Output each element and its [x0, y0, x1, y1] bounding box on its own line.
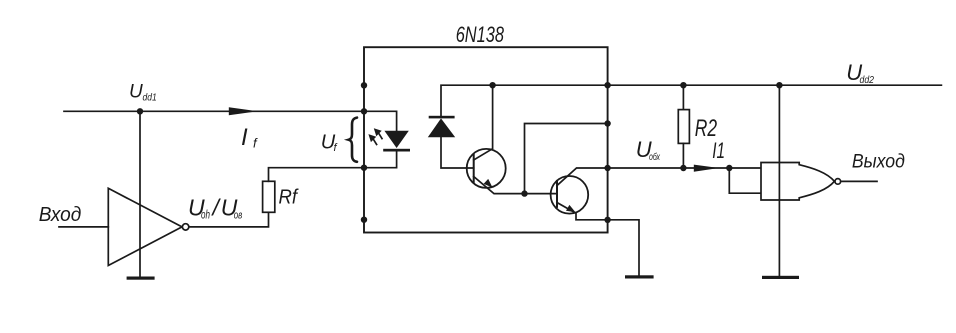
transistor Q1 base bar	[473, 155, 475, 182]
svg-text:dd2: dd2	[860, 74, 875, 86]
wire Rf top to pin3	[269, 168, 365, 182]
wire Q2 emitter to pin5	[557, 203, 608, 220]
wire pin5 to ground	[608, 220, 639, 275]
wire pin7 branch	[525, 124, 608, 194]
wire inverter output to Rf bottom	[189, 212, 269, 227]
photodiode D2 cathode bar	[429, 116, 455, 119]
wire R2 top lead	[682, 85, 684, 109]
wire LED cathode (LED to pin3)	[364, 152, 397, 168]
wire Q1 collector to rail	[474, 85, 493, 160]
pin 1 dot	[361, 82, 367, 88]
label I_f	[241, 124, 258, 151]
transistor Q2 circle	[551, 176, 589, 214]
resistor Rf body	[263, 181, 275, 212]
svg-text:U: U	[129, 81, 143, 102]
ground gate	[762, 276, 799, 279]
LED D1 triangle	[384, 131, 408, 148]
svg-text:oh: oh	[201, 209, 210, 221]
wire gate lower input branch	[729, 168, 761, 193]
gate output bubble	[835, 179, 841, 185]
junction dot Udd1	[137, 108, 143, 114]
pin 2 dot	[361, 108, 367, 114]
junction dot Q1 emitter / pin7	[521, 190, 527, 196]
wire Q2 collector to pin6	[557, 168, 608, 186]
wire gate output Выход	[841, 180, 877, 182]
svg-text:Вход: Вход	[39, 203, 82, 226]
pin 5 dot	[604, 217, 610, 223]
pin 4 dot	[361, 217, 367, 223]
ground inverter	[127, 277, 155, 280]
svg-text:ов: ов	[234, 210, 243, 222]
wire output row pin6 to gate	[608, 167, 761, 169]
svg-text:f: f	[253, 136, 258, 151]
wire U_dd1 rail	[64, 110, 364, 112]
brace U_f	[349, 118, 357, 162]
wire inverter power drop (Udd1 to ground through inverter)	[139, 111, 141, 276]
pin 7 dot	[604, 120, 610, 126]
svg-text:Выход: Выход	[852, 151, 905, 173]
pin 3 dot	[361, 165, 367, 171]
svg-text:Rf: Rf	[279, 187, 300, 209]
LED emission arrow 1	[379, 133, 382, 138]
wire input Вход	[59, 226, 108, 228]
svg-text:f: f	[334, 142, 338, 154]
inverter U1 triangle	[108, 188, 182, 265]
label U_dd2	[846, 60, 874, 86]
transistor Q1 emitter arrow	[484, 179, 493, 188]
wire U_dd2 rail (photodiode cathode top rail)	[441, 85, 941, 116]
label U_обх	[636, 137, 661, 163]
wire gate power drop (Udd2 to ground through gate)	[778, 85, 780, 276]
junction dot R2 bottom	[680, 165, 686, 171]
svg-text:I1: I1	[712, 138, 725, 163]
junction dot gate input branch	[726, 165, 732, 171]
wire R2 bottom lead	[682, 143, 684, 168]
pin 6 dot	[604, 165, 610, 171]
transistor Q1 circle	[467, 149, 506, 188]
wire photodiode anode to Q1 base	[441, 137, 474, 168]
6N138 package box	[364, 47, 608, 232]
resistor R2 body	[678, 110, 689, 144]
label U_oh/U_ов	[188, 194, 242, 221]
transistor Q2 base bar	[556, 181, 558, 207]
svg-text:обх: обх	[649, 151, 660, 163]
label U_dd1	[129, 81, 157, 103]
current arrow I1	[694, 165, 719, 172]
pin 8 dot	[604, 82, 610, 88]
wire LED anode (pin2 to LED)	[364, 111, 397, 130]
junction dot gate power	[776, 82, 782, 88]
current arrow If	[229, 107, 258, 115]
LED emission arrow 2	[373, 139, 376, 144]
junction dot R2 top	[680, 82, 686, 88]
label U_f (LED voltage)	[321, 132, 338, 155]
photodiode D2 triangle	[428, 118, 455, 137]
gate DD1 body	[761, 163, 834, 201]
wire Q1 emitter to Q2 base	[474, 177, 557, 194]
LED D1 cathode bar	[383, 149, 410, 152]
svg-text:dd1: dd1	[143, 91, 157, 103]
svg-text:6N138: 6N138	[456, 22, 505, 47]
ground 6N138	[625, 275, 654, 278]
svg-text:I: I	[241, 124, 248, 151]
junction dot Q1 collector rail	[489, 82, 495, 88]
transistor Q2 emitter arrow	[566, 205, 576, 212]
inverter U1 output bubble	[182, 224, 188, 230]
